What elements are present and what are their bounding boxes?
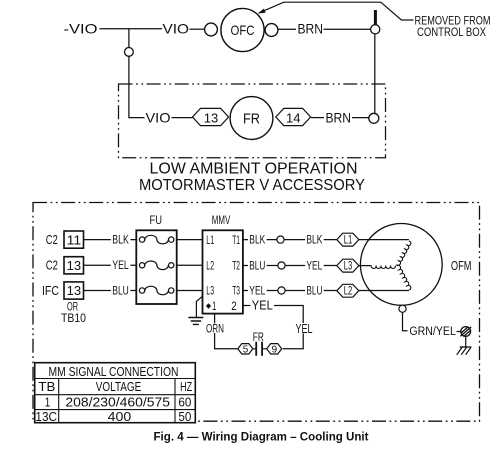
- svg-text:208/230/460/575: 208/230/460/575: [65, 396, 170, 410]
- wire label YEL vertical: [294, 322, 313, 336]
- wire: [190, 28, 205, 30]
- earth terminal circle hatched: [460, 327, 471, 337]
- svg-text:-VIO: -VIO: [64, 20, 98, 36]
- svg-text:MMV: MMV: [212, 213, 231, 227]
- svg-text:13C: 13C: [35, 410, 57, 424]
- svg-text:L1: L1: [344, 235, 353, 247]
- svg-text:50: 50: [178, 410, 191, 424]
- svg-text:YEL: YEL: [252, 299, 273, 313]
- wire motor ground lead: [403, 312, 408, 331]
- relay OFC: [221, 8, 264, 51]
- connector circle T3 row: [278, 287, 285, 294]
- wire vertical down to FR row right: [374, 34, 376, 113]
- svg-text:13: 13: [67, 283, 82, 298]
- wire label BLU: [111, 285, 131, 297]
- wire label BLK inner: [248, 234, 267, 246]
- svg-text:FR: FR: [243, 111, 260, 127]
- connector circle T2 row: [278, 262, 285, 269]
- contactor MMV: [203, 213, 243, 314]
- winding coil middle: [371, 266, 395, 269]
- svg-text:GRN/YEL: GRN/YEL: [409, 326, 456, 338]
- plug stub (thick): [374, 10, 377, 25]
- svg-text:L3: L3: [344, 261, 353, 273]
- connector 5: [238, 344, 253, 356]
- svg-text:VOLTAGE: VOLTAGE: [96, 380, 142, 394]
- svg-text:VIO: VIO: [146, 110, 171, 126]
- wire FU to MMV row2: [177, 264, 203, 266]
- svg-text:BLU: BLU: [112, 285, 129, 297]
- svg-text:YEL: YEL: [112, 260, 129, 272]
- ground earth at MMV: [188, 296, 203, 324]
- wire label BLU inner: [248, 260, 267, 272]
- svg-text:HZ: HZ: [180, 380, 192, 394]
- fuse F2: [139, 261, 173, 270]
- svg-text:L1: L1: [206, 235, 214, 247]
- table MM SIGNAL CONNECTION: [35, 363, 196, 424]
- junction circle top right: [371, 25, 380, 34]
- connector L1: [337, 233, 359, 246]
- svg-text:CONTROL BOX: CONTROL BOX: [417, 25, 486, 39]
- wire: [311, 117, 324, 119]
- terminal circle left of OFC: [205, 23, 218, 36]
- connector circle T1 row: [277, 236, 284, 243]
- wire row2 to FU: [84, 264, 137, 266]
- svg-text:OFM: OFM: [451, 259, 472, 273]
- svg-text:BLU: BLU: [249, 260, 265, 272]
- winding coil upper: [396, 241, 410, 265]
- wire label BLK: [111, 234, 131, 246]
- callout leader removed-from-control-box: [258, 2, 414, 20]
- svg-text:5: 5: [243, 344, 249, 356]
- fuse block FU: [136, 213, 176, 304]
- svg-text:11: 11: [67, 232, 82, 247]
- svg-text:BLK: BLK: [112, 234, 129, 246]
- terminal block 11: [64, 231, 84, 248]
- svg-text:60: 60: [178, 396, 191, 410]
- connector L3: [337, 259, 359, 272]
- relay FR: [230, 97, 273, 140]
- svg-text:BRN: BRN: [298, 20, 324, 36]
- svg-text:C2: C2: [46, 232, 58, 247]
- wire row1 to FU: [84, 239, 137, 241]
- note REMOVED FROM CONTROL BOX: [415, 14, 491, 40]
- wire FU to MMV row1: [177, 239, 203, 241]
- wire: [172, 117, 193, 119]
- terminal circle FR row right: [369, 113, 379, 123]
- connector 9: [267, 344, 282, 356]
- motor OFM circle: [360, 224, 442, 306]
- svg-text:FU: FU: [150, 213, 163, 227]
- wire terminal 2 loop: [243, 306, 303, 349]
- wire: [352, 117, 369, 119]
- svg-text:YEL: YEL: [296, 322, 313, 336]
- wire: [324, 28, 371, 30]
- svg-text:1: 1: [45, 396, 51, 410]
- svg-text:ORN: ORN: [206, 323, 224, 335]
- wire label YEL inner: [248, 285, 267, 297]
- svg-text:TB10: TB10: [61, 311, 86, 325]
- svg-text:13: 13: [67, 258, 82, 273]
- terminal circle right of OFC: [265, 24, 278, 37]
- wire L1 into motor: [359, 239, 409, 241]
- svg-text:YEL: YEL: [249, 285, 265, 297]
- svg-text:LOW AMBIENT OPERATION: LOW AMBIENT OPERATION: [150, 160, 358, 177]
- wire T2 to L3 hex: [243, 265, 337, 267]
- svg-text:9: 9: [272, 344, 278, 356]
- svg-text:TB: TB: [38, 380, 55, 394]
- svg-text:2: 2: [231, 301, 237, 313]
- wire L3 into motor: [359, 265, 372, 267]
- svg-text:IFC: IFC: [42, 283, 59, 298]
- connector 13: [193, 108, 229, 125]
- wire T1 to L1 hex: [243, 239, 337, 241]
- chassis ground: [457, 336, 472, 354]
- wire label ORN: [205, 323, 226, 335]
- plug contact bars FR: [253, 342, 267, 356]
- svg-text:OFC: OFC: [231, 22, 255, 38]
- note OR TB10: [61, 300, 86, 325]
- svg-text:BLK: BLK: [249, 234, 265, 246]
- wire label BLK outer: [305, 234, 324, 246]
- terminal block 13 row2: [64, 257, 84, 274]
- wire VIO to OFC row left: [100, 28, 163, 30]
- connector 14: [276, 108, 311, 125]
- wire FU to MMV row3: [177, 290, 203, 292]
- wire row3 to FU: [84, 290, 137, 292]
- cooling unit dashed enclosure: [33, 203, 480, 422]
- wire label YEL: [111, 260, 131, 272]
- svg-text:L2: L2: [344, 286, 353, 298]
- terminal circle motor bottom: [399, 305, 406, 312]
- svg-text:MOTORMASTER V ACCESSORY: MOTORMASTER V ACCESSORY: [139, 177, 365, 194]
- svg-text:MM SIGNAL CONNECTION: MM SIGNAL CONNECTION: [49, 365, 179, 379]
- connector circle on vertical VIO wire: [124, 48, 133, 57]
- dashed accessory box: [119, 84, 386, 158]
- wire vertical drop to FR row: [129, 29, 145, 118]
- svg-text:T1: T1: [232, 235, 240, 247]
- wire label BLU outer: [305, 285, 324, 297]
- wire label YEL outer: [305, 260, 324, 272]
- wire terminal 1 to plug: [215, 314, 238, 349]
- wire label YEL at terminal 2: [250, 299, 274, 313]
- svg-text:1: 1: [212, 301, 216, 313]
- fuse F3: [139, 286, 173, 295]
- connector L2: [337, 284, 359, 297]
- svg-text:T3: T3: [232, 286, 240, 298]
- wire: [457, 331, 462, 333]
- wire L2 into motor: [359, 290, 409, 292]
- terminal block 13 row3: [64, 282, 84, 299]
- svg-text:BRN: BRN: [326, 110, 352, 126]
- svg-text:C2: C2: [46, 258, 58, 273]
- svg-text:L3: L3: [206, 286, 214, 298]
- fuse F1: [139, 235, 173, 244]
- svg-text:YEL: YEL: [306, 260, 322, 272]
- svg-text:VIO: VIO: [163, 20, 190, 36]
- svg-text:Fig. 4 — Wiring Diagram – Cool: Fig. 4 — Wiring Diagram – Cooling Unit: [154, 429, 369, 443]
- svg-text:L2: L2: [206, 261, 214, 273]
- svg-text:T2: T2: [232, 261, 240, 273]
- svg-text:BLU: BLU: [306, 285, 322, 297]
- winding coil lower: [397, 265, 411, 290]
- svg-text:14: 14: [286, 110, 301, 125]
- svg-text:BLK: BLK: [306, 234, 322, 246]
- svg-text:13: 13: [204, 110, 219, 125]
- wire: [278, 28, 296, 30]
- wire T3 to L2 hex: [243, 290, 337, 292]
- svg-text:400: 400: [108, 410, 132, 424]
